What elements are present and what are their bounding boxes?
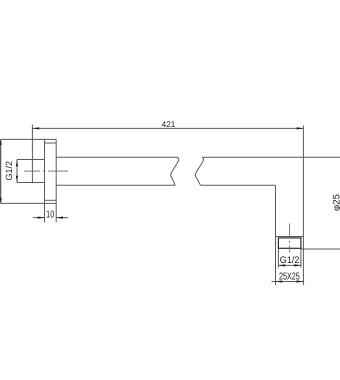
extension line for 421 dimension (left) <box>31 125 33 183</box>
arrowhead 25X25 left <box>275 280 282 282</box>
arrowhead connector G1/2 right <box>294 264 301 266</box>
flange plate outline <box>45 139 57 222</box>
arm centerline (dash-dot) <box>24 170 68 172</box>
wall thread pipe end / G1/2 dimension line <box>16 160 18 183</box>
wall thread pipe G1/2 bottom edge <box>17 182 45 184</box>
flange top chamfer line <box>45 142 57 144</box>
arrowhead 421 left <box>32 127 39 129</box>
wall thread pipe G1/2 top edge <box>17 159 45 161</box>
svg-text:G1/2: G1/2 <box>4 161 14 181</box>
drop tube left edge + 25X25 extension <box>275 185 277 285</box>
flange top edge + left extension line <box>1 138 56 140</box>
arrowhead G1/2 left down <box>16 176 18 183</box>
svg-text:25X25: 25X25 <box>279 272 300 283</box>
connector block (nut) <box>278 238 301 248</box>
dimension line 421 <box>32 127 303 129</box>
arm top edge right segment + right extension line <box>202 156 340 158</box>
drop tube bottom end <box>276 236 304 238</box>
arrowhead G1/2 left up <box>16 160 18 167</box>
dimension line 10 (right piece) <box>56 217 68 219</box>
arm bottom edge right segment <box>201 184 276 186</box>
connector G1/2 dimension arrow line <box>278 264 301 266</box>
arm top edge left segment <box>56 156 177 158</box>
break symbol right curve <box>195 157 203 185</box>
svg-text:421: 421 <box>162 120 176 129</box>
arrowhead flange-diameter top (cropped) <box>0 139 2 145</box>
arrowhead 421 right <box>297 127 304 129</box>
arrowhead connector G1/2 left <box>278 264 285 266</box>
svg-text:10: 10 <box>46 209 54 220</box>
arrowhead 10 right <box>56 217 63 219</box>
arrowhead 10 left <box>38 217 45 219</box>
arm bottom edge left segment <box>56 184 175 186</box>
connector G1/2 extension lines <box>278 248 301 267</box>
dimension line 10 (left piece) <box>33 217 45 219</box>
arrowhead flange-diameter bottom (cropped) <box>0 198 2 204</box>
flange bottom edge + left extension line <box>1 202 56 204</box>
drop tube right edge + 421/25X25 extension <box>302 126 304 286</box>
arrowhead 25X25 right <box>297 280 304 282</box>
svg-text:G1/2: G1/2 <box>280 255 300 266</box>
svg-text:φ25: φ25 <box>331 194 340 211</box>
extension line from connector bottom to right dimension <box>301 248 340 250</box>
break symbol left curve <box>171 157 179 185</box>
dimension line 25X25 <box>272 281 305 283</box>
flange bottom chamfer line <box>45 199 57 201</box>
cropped flange-diameter dimension line at left edge <box>0 139 2 203</box>
drop tube centerline (dash-dot) <box>289 224 291 253</box>
